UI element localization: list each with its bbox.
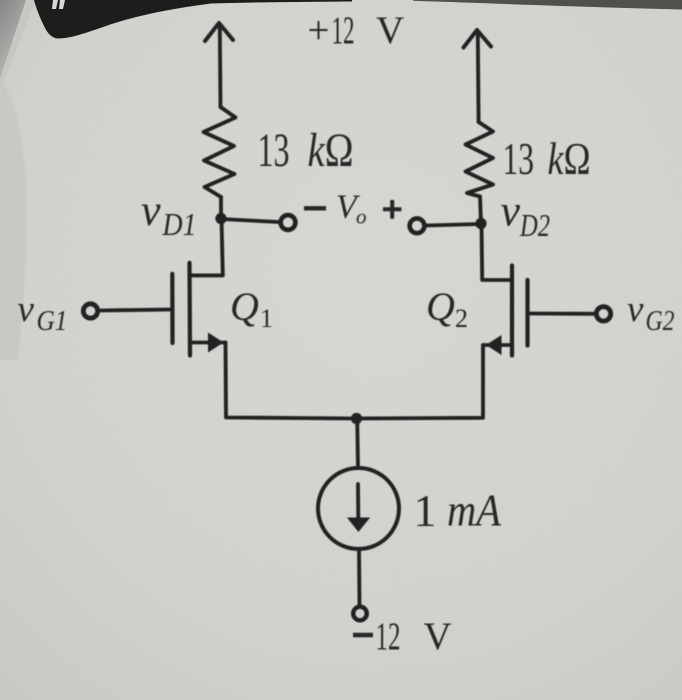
current source arrow xyxy=(347,484,370,532)
label Q1 xyxy=(230,284,273,333)
tail junction node dot xyxy=(351,413,362,424)
transistor Q2 gate bar xyxy=(525,280,529,346)
label 1 mA xyxy=(414,485,502,537)
wire node vD1 to output terminal xyxy=(221,219,279,222)
terminal -12V (open circle) xyxy=(353,607,367,621)
transistor Q1 channel bar xyxy=(187,263,192,356)
label -12 V xyxy=(353,615,452,658)
label vD2 xyxy=(501,186,551,243)
label 13 kOhm right xyxy=(503,133,591,184)
label 13 kOhm left xyxy=(258,124,354,177)
terminal vG1 (open circle) xyxy=(83,304,97,318)
wire tail node to current source xyxy=(355,419,360,469)
dark band top-right xyxy=(413,0,682,10)
transistor Q1 gate bar xyxy=(170,274,174,343)
output terminal plus (open circle) xyxy=(410,218,425,233)
wire resistor to node vD2 xyxy=(480,197,481,224)
soft shading along left paper edge xyxy=(0,80,27,360)
label vD1 xyxy=(141,186,197,242)
terminal vG2 (open circle) xyxy=(596,307,610,321)
node vD2 junction dot xyxy=(475,218,486,229)
label minus Vo plus xyxy=(304,189,401,229)
desk edge at top-left corner xyxy=(0,0,26,80)
Q1 source tap with arrowhead xyxy=(190,333,226,353)
white quote mark in wedge xyxy=(52,0,65,9)
Q1 gate wire xyxy=(100,310,171,311)
wire resistor to node vD1 xyxy=(219,197,223,219)
label +12 V xyxy=(308,9,405,52)
Q1 source wire down to tail xyxy=(226,343,357,419)
resistor RD1 13k xyxy=(204,107,236,197)
+12V supply arrow left xyxy=(205,23,233,107)
Q2 source tap with arrowhead xyxy=(483,335,512,355)
page edge highlight strip xyxy=(0,0,36,84)
Q2 source wire down to tail xyxy=(357,345,483,419)
resistor RD2 13k xyxy=(466,122,494,197)
wire current source to -12V terminal xyxy=(357,549,361,606)
label Q2 xyxy=(426,284,468,333)
output terminal minus (open circle) xyxy=(281,215,296,230)
wire node vD2 to output terminal xyxy=(426,224,481,226)
current source I 1mA circle xyxy=(318,468,399,549)
wire node vD1 down to Q1 drain xyxy=(191,219,223,276)
node vD1 junction dot xyxy=(215,213,226,224)
Q2 gate wire xyxy=(529,312,595,316)
+12V supply arrow right xyxy=(464,30,492,122)
label vG1 xyxy=(18,289,68,337)
wire node vD2 down to Q2 drain xyxy=(482,224,513,281)
dark page-header wedge top-left xyxy=(34,0,352,39)
label vG2 xyxy=(627,289,675,337)
transistor Q2 channel bar xyxy=(510,266,514,356)
